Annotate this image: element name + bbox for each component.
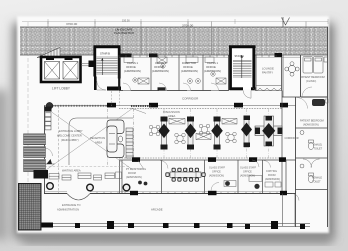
grid centerlines through clusters — [164, 109, 269, 158]
reception desk — [107, 120, 124, 158]
svg-text:CLASS 1: CLASS 1 — [127, 61, 139, 65]
south wall — [44, 193, 296, 195]
brick planter band — [20, 27, 328, 55]
svg-text:CORRIDOR: CORRIDOR — [182, 97, 199, 101]
lift block walls — [41, 57, 81, 82]
svg-text:STAIR A: STAIR A — [235, 55, 245, 58]
svg-text:(ADMISSION): (ADMISSION) — [181, 69, 198, 73]
lounge pantry — [255, 55, 257, 91]
svg-text:ENTRANCE LOBBY: ENTRANCE LOBBY — [59, 129, 83, 133]
svg-text:(ADMISSION): (ADMISSION) — [209, 175, 224, 178]
stair A door swing — [243, 91, 251, 99]
svg-text:(ADMISSION): (ADMISSION) — [126, 176, 142, 179]
office front wall with doors — [119, 90, 229, 92]
svg-text:OFFICE: OFFICE — [212, 171, 221, 174]
svg-text:TOILET: TOILET — [312, 181, 321, 184]
svg-text:GLASS STAFF: GLASS STAFF — [240, 167, 257, 170]
desks between clusters — [169, 119, 237, 140]
svg-text:TOILET: TOILET — [314, 148, 323, 151]
female toilet — [300, 164, 314, 183]
black chunks on main wall — [107, 103, 116, 108]
offices row walls — [118, 55, 120, 91]
grid bubble V mark — [282, 18, 290, 26]
planter label over brick — [114, 28, 134, 35]
workstation clusters — [158, 116, 252, 150]
svg-text:STAIR B: STAIR B — [100, 52, 110, 56]
svg-text:3700.00: 3700.00 — [66, 22, 77, 26]
dimension line top — [22, 21, 328, 23]
lower rooms top wall — [119, 159, 296, 161]
svg-text:OFFICE: OFFICE — [206, 65, 216, 69]
door arc south right — [292, 194, 299, 201]
svg-text:ENTRANCE TO: ENTRANCE TO — [62, 203, 81, 207]
svg-text:PT MONITORING: PT MONITORING — [126, 168, 146, 171]
piers along band bottom — [120, 54, 132, 58]
scalloped canopy under lounge — [253, 88, 281, 91]
arcade — [40, 224, 310, 227]
door arc west entrance — [45, 148, 53, 156]
svg-text:(ADMISSION): (ADMISSION) — [240, 175, 255, 178]
dimension texts — [66, 20, 314, 31]
page — [17, 16, 329, 233]
lift door stubs — [46, 56, 54, 60]
operable partition dashes — [131, 105, 152, 107]
PB admission door arc — [297, 98, 308, 109]
svg-text:OFFICE: OFFICE — [183, 65, 193, 69]
big hatched block bottom-left — [19, 184, 42, 231]
vertical corridor right — [281, 91, 283, 194]
svg-text:(ADMISSION): (ADMISSION) — [265, 178, 280, 181]
svg-text:ADMINISTRATION: ADMINISTRATION — [57, 208, 79, 212]
black column left of stair B — [89, 61, 94, 68]
lift car 1 — [45, 62, 60, 80]
open office area — [119, 157, 282, 159]
lift car 2 — [63, 62, 78, 80]
svg-text:AREA: AREA — [95, 141, 102, 145]
svg-text:(ADMISSION): (ADMISSION) — [152, 69, 169, 73]
planter squares left — [45, 113, 51, 130]
right rooms — [282, 96, 300, 98]
dimension ticks — [48, 19, 328, 24]
PB admission dark bed — [312, 99, 325, 106]
svg-text:PLANTER BOX: PLANTER BOX — [114, 31, 134, 35]
window band under brick (office fronts) — [119, 56, 300, 58]
svg-text:ARCADE: ARCADE — [151, 208, 163, 212]
A marker — [47, 159, 53, 164]
svg-text:DISCUSSION: DISCUSSION — [163, 110, 180, 114]
svg-text:CLASS 1: CLASS 1 — [207, 61, 219, 65]
office labels — [124, 61, 221, 73]
stair B lower landing walls — [94, 77, 97, 91]
east wall — [327, 27, 329, 227]
shelving — [126, 128, 133, 158]
svg-text:DIRECTOR: DIRECTOR — [182, 61, 196, 65]
grid line x=283 — [282, 17, 284, 97]
west ramps hatched — [24, 134, 46, 172]
plus-shaped cluster — [255, 116, 283, 146]
shelf right of lift — [81, 64, 92, 66]
svg-text:CORRIDOR: CORRIDOR — [285, 136, 299, 140]
svg-text:(CLINIC): (CLINIC) — [306, 79, 316, 83]
office desks + chairs — [124, 57, 226, 84]
svg-text:FEMALE: FEMALE — [312, 177, 322, 180]
svg-text:OFFICE: OFFICE — [126, 65, 136, 69]
svg-text:(ADMISSION): (ADMISSION) — [303, 124, 319, 127]
svg-text:RECEPTION: RECEPTION — [90, 136, 105, 140]
svg-text:AREA: AREA — [168, 114, 176, 118]
round column — [46, 102, 53, 109]
lower room partitions — [120, 160, 287, 194]
south wall mullions — [97, 192, 277, 194]
main east-west wall — [44, 105, 296, 107]
svg-text:(MAIN LOBBY): (MAIN LOBBY) — [61, 138, 79, 142]
entrance canopy — [67, 194, 90, 201]
stair A — [230, 47, 254, 90]
svg-text:PATIENT BEDROOM: PATIENT BEDROOM — [300, 120, 324, 123]
stair B — [95, 47, 120, 77]
black wall chunk near lounge top — [275, 53, 283, 57]
triangle ramp near stair B — [37, 48, 60, 58]
svg-text:ROOM: ROOM — [128, 172, 136, 175]
svg-text:(MALE): (MALE) — [314, 144, 323, 147]
dark cabinet corridor left — [158, 87, 166, 90]
south wall chunks — [130, 191, 138, 195]
page shadow — [13, 23, 334, 238]
svg-text:WELCOME CENTER: WELCOME CENTER — [57, 134, 82, 138]
grid lines through brick band — [48, 22, 306, 58]
grid line x=28 (west dimension line) — [27, 22, 29, 230]
office door arcs — [123, 83, 131, 91]
svg-text:GLASS STAFF: GLASS STAFF — [209, 167, 226, 170]
svg-text:COPYING: COPYING — [266, 170, 277, 173]
svg-text:150.00: 150.00 — [122, 20, 130, 23]
svg-text:PATIENT BEDROOM: PATIENT BEDROOM — [300, 75, 325, 79]
male toilet — [300, 131, 314, 150]
corridor walls horizontal — [119, 90, 229, 92]
round tables with chairs — [149, 124, 236, 144]
svg-text:OFFICE: OFFICE — [154, 65, 164, 69]
svg-text:CLASS 1: CLASS 1 — [155, 61, 167, 65]
patient bedroom clinic — [301, 55, 328, 97]
svg-text:(ADMISSION): (ADMISSION) — [124, 69, 141, 73]
svg-text:LIFT LOBBY: LIFT LOBBY — [52, 87, 71, 91]
svg-text:(ADMISSION): (ADMISSION) — [204, 69, 221, 73]
svg-text:WAITING AREA: WAITING AREA — [62, 169, 81, 173]
waiting area — [45, 166, 131, 168]
lounge round table — [285, 62, 299, 76]
svg-text:ROOM: ROOM — [268, 174, 275, 177]
svg-text:PANTRY: PANTRY — [262, 71, 273, 75]
svg-text:OFFICE: OFFICE — [243, 171, 252, 174]
double doors bottom right — [303, 159, 320, 168]
entrance lobby — [44, 106, 46, 194]
black bar below stair B door — [107, 87, 121, 91]
stair B door arc — [97, 81, 106, 90]
